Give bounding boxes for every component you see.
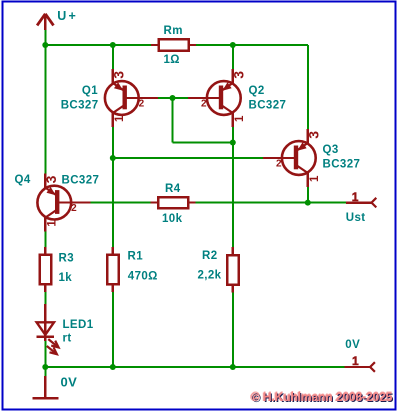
svg-text:R1: R1 — [128, 250, 144, 262]
node 0V rail at R1 column — [110, 364, 116, 370]
svg-text:1Ω: 1Ω — [164, 54, 180, 66]
svg-text:BC327: BC327 — [249, 100, 287, 112]
svg-text:Q3: Q3 — [323, 144, 339, 156]
svg-text:R2: R2 — [202, 250, 218, 262]
svg-text:3: 3 — [110, 71, 126, 79]
label Q4 BC327 — [15, 174, 100, 187]
svg-text:rt: rt — [63, 333, 72, 345]
supply symbol U+ — [37, 14, 53, 30]
label R1 — [128, 250, 144, 262]
value 470Ω — [128, 270, 158, 282]
svg-text:2: 2 — [201, 99, 207, 110]
resistor R4 — [151, 197, 196, 208]
ground symbol — [33, 376, 59, 398]
svg-text:Q4: Q4 — [15, 174, 31, 186]
node U+ rail at Q2 collector drop — [230, 42, 236, 48]
resistor Rm — [151, 39, 196, 50]
svg-text:1: 1 — [352, 354, 359, 368]
node Q2 bottom pin / R2 column — [230, 140, 236, 146]
svg-text:1: 1 — [309, 175, 321, 182]
svg-text:3: 3 — [230, 71, 246, 79]
resistor R1 — [107, 247, 118, 292]
node 0V rail at R2 column — [230, 364, 236, 370]
svg-text:BC327: BC327 — [61, 99, 99, 111]
svg-text:Q1: Q1 — [82, 85, 98, 97]
pin number 1 of 0V pin — [352, 354, 359, 368]
wire Q4 bottom pin to R3 — [44, 231, 46, 247]
label Q1 BC327 — [61, 85, 99, 112]
wire LED1 cathode to bottom rail — [44, 340, 46, 367]
svg-text:BC327: BC327 — [323, 158, 361, 170]
wire vertical from node at Q1 base down — [172, 98, 174, 143]
svg-text:3: 3 — [305, 131, 321, 139]
label 0V at ground — [61, 375, 78, 390]
label 0V at output pin — [345, 339, 360, 351]
value 1Ω — [164, 54, 180, 66]
label Ust — [346, 212, 366, 224]
value 1k — [59, 272, 73, 284]
node Q3 bottom pin on Ust row — [305, 200, 311, 206]
output pin Ust — [346, 198, 377, 208]
wire drop from top rail to Q3 collector column — [307, 45, 309, 130]
wire 0V bottom rail — [45, 366, 344, 368]
transistor Q4 — [37, 174, 90, 232]
svg-text:BC327: BC327 — [62, 174, 100, 186]
svg-text:3: 3 — [43, 175, 59, 183]
label R2 — [202, 250, 218, 262]
svg-text:Q2: Q2 — [249, 85, 265, 97]
node U+ rail at Q1 collector drop — [110, 42, 116, 48]
svg-text:2,2k: 2,2k — [198, 270, 222, 282]
wire horizontal to Q2 emitter-bottom node — [173, 142, 233, 144]
svg-text:R3: R3 — [59, 253, 75, 265]
svg-text:1: 1 — [352, 190, 359, 204]
svg-text:LED1: LED1 — [63, 319, 94, 331]
wire R2 column from node down to R2 and bottom rail — [232, 143, 234, 368]
svg-text:1k: 1k — [59, 272, 73, 284]
transistor Q3 — [263, 129, 322, 187]
wire Q4 base to R4 — [90, 202, 151, 204]
svg-text:1: 1 — [46, 220, 58, 227]
svg-text:Rm: Rm — [164, 25, 183, 37]
wire ground stem — [44, 367, 46, 376]
svg-text:0V: 0V — [61, 375, 78, 390]
wire U+ rail top horizontal right segment — [196, 44, 308, 46]
wire drop from top rail to Q2 top pin — [232, 45, 234, 70]
wire Q1 base to Q2 base — [158, 97, 189, 99]
wire Q3 bottom pin to Ust row node — [307, 187, 309, 203]
label R4 — [165, 183, 181, 195]
label Q3 BC327 — [323, 144, 361, 171]
label R3 — [59, 253, 75, 265]
transistor Q1 — [105, 69, 158, 127]
label U+ — [57, 9, 78, 23]
node 0V rail at ground column — [42, 364, 48, 370]
LED LED1 — [37, 304, 59, 354]
wire R4 to Ust output row — [196, 202, 346, 204]
wire U+ rail top horizontal left segment — [45, 44, 151, 46]
output pin 0V — [344, 362, 375, 372]
label LED1 rt — [63, 319, 94, 345]
svg-text:2: 2 — [71, 203, 77, 214]
svg-text:Ust: Ust — [346, 212, 366, 224]
wire R1 column from node down through R1 to bottom rail — [112, 158, 114, 367]
svg-text:2: 2 — [276, 159, 282, 170]
node Q1 base / Q2 base net — [170, 95, 176, 101]
resistor R3 — [40, 247, 51, 292]
value 10k — [162, 213, 183, 225]
wire R3 to LED1 — [44, 292, 46, 304]
svg-text:U+: U+ — [57, 9, 78, 23]
svg-text:R4: R4 — [165, 183, 181, 195]
wire Q1 bottom pin down to node — [112, 127, 114, 159]
wire drop from top rail to Q1 top pin — [112, 45, 114, 70]
svg-text:470Ω: 470Ω — [128, 270, 158, 282]
node U+ rail at supply column — [42, 42, 48, 48]
svg-text:0V: 0V — [345, 339, 360, 351]
svg-text:1: 1 — [234, 115, 246, 122]
value 2,2k — [198, 270, 222, 282]
svg-text:2: 2 — [139, 99, 145, 110]
pin number 1 of Ust — [352, 190, 359, 204]
label Q2 BC327 — [249, 85, 287, 112]
label Rm — [164, 25, 183, 37]
wire Q2 bottom pin to node — [232, 127, 234, 143]
resistor R2 — [227, 247, 238, 292]
svg-text:1: 1 — [114, 115, 126, 122]
copyright text — [251, 390, 392, 404]
wire U+ column from supply to Q4 top pin — [44, 30, 46, 174]
node Q1 bottom pin / R1 column / Q3 base row — [110, 155, 116, 161]
svg-text:10k: 10k — [162, 213, 183, 225]
transistor Q2 — [188, 69, 247, 127]
wire row from Q1 bottom node to Q3 base — [113, 157, 263, 159]
